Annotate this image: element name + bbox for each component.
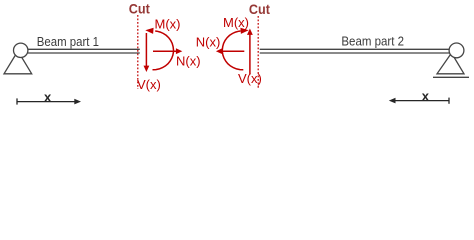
right support ground line [433,76,469,78]
left x-dimension line [17,101,75,103]
right moment arc M(x) [222,31,243,70]
svg-text:V(x): V(x) [238,71,262,86]
svg-text:V(x): V(x) [137,77,161,92]
beam part 2 (double line) [260,49,453,53]
svg-text:M(x): M(x) [155,16,181,31]
right x-dimension tick [448,98,450,104]
svg-text:Cut: Cut [249,1,270,17]
svg-text:Cut: Cut [129,1,150,17]
left cut dashed line [137,15,139,89]
left shear force arrow V(x) [144,33,150,72]
left pin support circle [14,43,28,57]
right shear force arrow V(x) [247,29,253,75]
right support circle [449,43,464,58]
left moment arc M(x) [153,31,174,70]
right cut dashed line [257,16,259,89]
svg-text:x: x [422,88,430,103]
left normal force arrow N(x) [153,48,182,54]
svg-text:x: x [44,89,52,104]
svg-text:Beam part 2: Beam part 2 [341,34,404,49]
right x-dimension arrowhead [389,98,396,104]
svg-text:N(x): N(x) [176,53,201,68]
left pin support triangle [4,51,32,74]
beam part 1 (double line) [22,49,140,53]
right normal force arrow N(x) [216,48,244,54]
svg-text:Beam part 1: Beam part 1 [37,34,99,49]
svg-text:N(x): N(x) [196,34,221,49]
right support triangle [437,53,464,74]
left moment arrowhead [145,28,153,34]
left x-dimension tick [16,98,18,104]
right x-dimension line [395,100,449,102]
left x-dimension arrowhead [74,99,81,105]
right moment arrowhead [240,28,248,34]
svg-text:M(x): M(x) [223,15,249,30]
